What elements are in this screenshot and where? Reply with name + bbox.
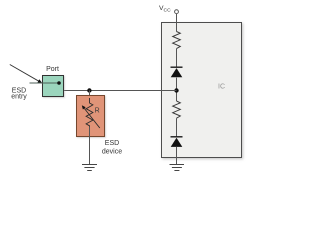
svg-text:ESD: ESD (105, 140, 119, 147)
VCC terminal (175, 10, 179, 14)
svg-text:entry: entry (11, 94, 27, 101)
ground (ESD device side) (82, 165, 97, 171)
svg-text:VCC: VCC (159, 5, 171, 14)
resistor R (lower, inside IC) (173, 101, 181, 118)
ESD device box (77, 96, 105, 137)
resistor R (upper, inside IC) (173, 32, 181, 49)
IC block U1 (162, 23, 242, 158)
wire VCC to resistor (176, 14, 178, 32)
svg-text:Port: Port (46, 66, 59, 73)
entry endpoint dot (57, 81, 61, 85)
svg-text:R: R (95, 108, 100, 115)
entry wire into port (30, 82, 58, 84)
svg-text:IC: IC (218, 84, 225, 91)
varistor RV1 zigzag (86, 98, 93, 127)
ground (IC side) (170, 165, 185, 171)
wire resistor to diode D2 (176, 118, 178, 137)
junction node (pin) (174, 88, 178, 92)
wire D2 to ground (176, 147, 178, 164)
wire D1 to node (176, 78, 178, 101)
diode D1 (to VCC) (171, 66, 183, 68)
diode D2 (to ground) (171, 136, 183, 138)
wire varistor to box bottom and ground (89, 127, 91, 165)
wire resistor to diode D1 (176, 49, 178, 67)
port box (43, 76, 64, 97)
junction node (ESD branch) (87, 88, 91, 92)
ESD entry arrow (diagonal) (10, 65, 39, 82)
wire node to ESD device (89, 91, 91, 104)
svg-text:device: device (102, 149, 122, 156)
wire main signal (port to IC pin) (64, 90, 177, 92)
varistor arrow (84, 108, 100, 128)
